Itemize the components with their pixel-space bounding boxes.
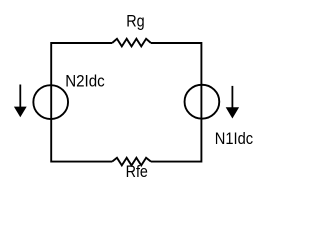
- wire: top-left segment: [51, 42, 112, 44]
- resistor Rg: [112, 39, 151, 47]
- current source N2Idc (circle): [33, 85, 68, 119]
- arrow: N2Idc current direction (left, pointing down): [14, 85, 27, 118]
- wire: top-right segment: [151, 42, 201, 44]
- svg-text:Rg: Rg: [126, 12, 144, 31]
- wire: bottom-right segment: [151, 161, 201, 163]
- wire: left vertical: [50, 42, 52, 163]
- wire: bottom-left segment: [51, 161, 112, 163]
- svg-text:N2Idc: N2Idc: [65, 71, 105, 90]
- resistor Rfe: [112, 158, 151, 166]
- current source N1Idc (circle): [185, 85, 220, 119]
- wire: right vertical: [200, 42, 202, 163]
- svg-text:N1Idc: N1Idc: [215, 129, 253, 148]
- svg-text:Rfe: Rfe: [126, 162, 148, 181]
- arrow: N1Idc current direction (right, pointing down): [226, 86, 239, 119]
